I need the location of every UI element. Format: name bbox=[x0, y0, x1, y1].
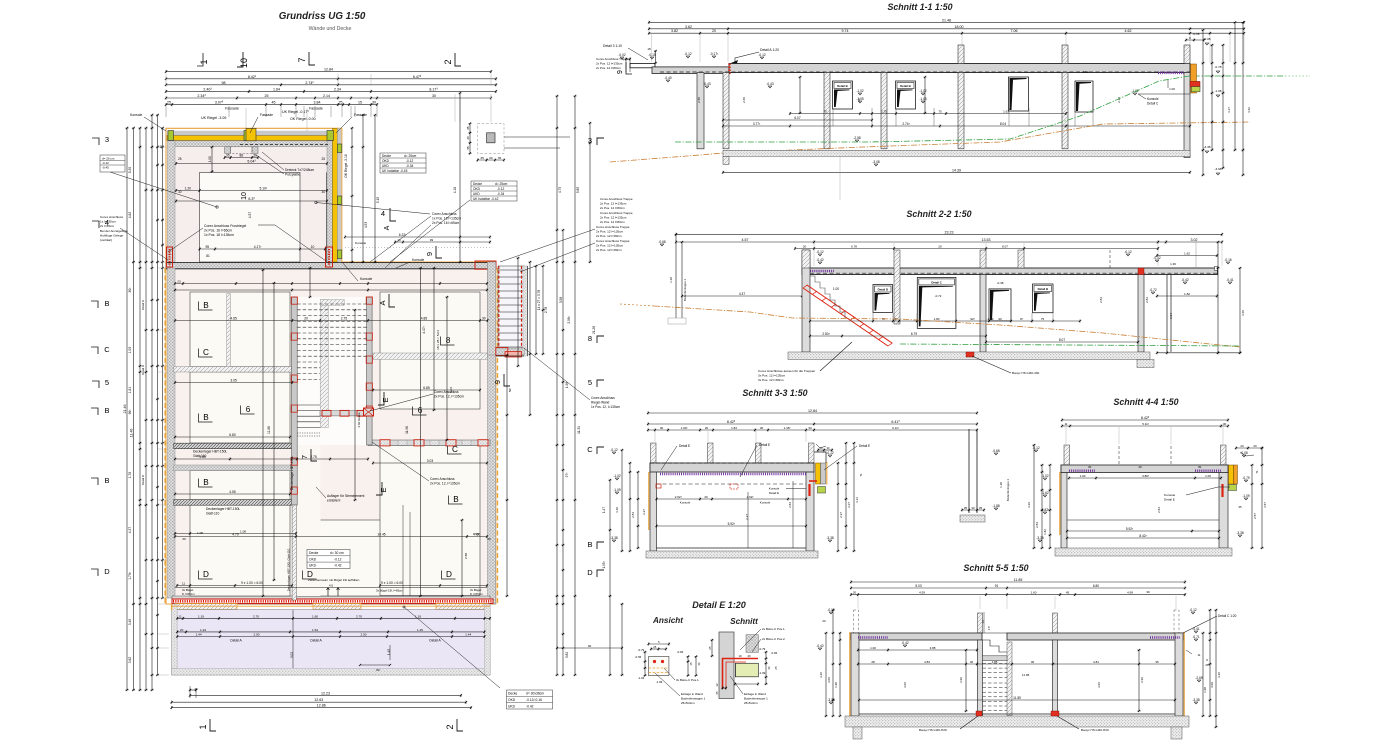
svg-text:Bauyx HS lvl40-H29: Bauyx HS lvl40-H29 bbox=[919, 728, 947, 732]
schnitt1 bottom hatch strip bbox=[723, 150, 1190, 156]
svg-text:Wände und Decke: Wände und Decke bbox=[309, 26, 352, 32]
schnitt2 window boxes bbox=[873, 285, 893, 313]
green anchor blocks top wall bbox=[168, 131, 174, 141]
external stair dims bbox=[528, 261, 548, 416]
svg-text:Bei der Anzeigefuge: Bei der Anzeigefuge bbox=[100, 229, 128, 233]
svg-text:11.85: 11.85 bbox=[1022, 673, 1030, 677]
svg-text:Schnitt 2-2 1:50: Schnitt 2-2 1:50 bbox=[906, 209, 971, 219]
svg-text:-3.08: -3.08 bbox=[872, 160, 879, 164]
svg-text:8.42³: 8.42³ bbox=[727, 420, 736, 424]
svg-text:6.47³: 6.47³ bbox=[413, 75, 422, 79]
wall horizontal light hatch bbox=[174, 465, 291, 471]
svg-text:Bodenfentreppe 1: Bodenfentreppe 1 bbox=[744, 697, 768, 701]
schnitt2 top dims bbox=[675, 230, 1223, 266]
svg-text:20: 20 bbox=[853, 591, 857, 595]
svg-text:99: 99 bbox=[430, 238, 434, 242]
svg-text:35: 35 bbox=[1238, 505, 1242, 509]
svg-text:12.84: 12.84 bbox=[808, 409, 817, 413]
orange insulation dashes right wall bbox=[497, 268, 499, 604]
svg-text:2.34³: 2.34³ bbox=[197, 94, 206, 98]
svg-text:1.38: 1.38 bbox=[999, 482, 1003, 488]
svg-text:Bodenfentreppe 1: Bodenfentreppe 1 bbox=[1006, 478, 1010, 501]
dotted reference line upper right bbox=[345, 247, 490, 249]
svg-text:7: 7 bbox=[300, 455, 309, 459]
svg-text:-1.09: -1.09 bbox=[1242, 494, 1249, 498]
terrace hatch border left bbox=[172, 604, 178, 675]
svg-text:2x Pos. 12 l=135cm: 2x Pos. 12 l=135cm bbox=[600, 202, 627, 206]
schnitt5 walls bbox=[851, 633, 859, 716]
schnitt3 slab bbox=[650, 463, 814, 472]
svg-text:Detail A 1:20: Detail A 1:20 bbox=[760, 48, 779, 52]
detailE schnitt green bar bbox=[735, 663, 758, 677]
svg-text:-0.79: -0.79 bbox=[1242, 476, 1249, 480]
svg-text:2.40³: 2.40³ bbox=[203, 87, 212, 91]
svg-text:2.98³: 2.98³ bbox=[567, 316, 571, 323]
schnitt3 dashed line bbox=[656, 483, 806, 485]
svg-text:Detail 3 1:10: Detail 3 1:10 bbox=[603, 44, 622, 48]
main body top wall hatch bbox=[166, 263, 496, 269]
svg-text:90: 90 bbox=[998, 317, 1002, 321]
external stair side gray band bbox=[523, 266, 528, 356]
svg-text:UK Riegel -3.09: UK Riegel -3.09 bbox=[201, 116, 226, 120]
svg-text:1.00: 1.00 bbox=[1169, 87, 1175, 91]
schnitt1 interior dim lines bbox=[697, 76, 1191, 128]
svg-text:20: 20 bbox=[1253, 444, 1257, 448]
svg-text:30: 30 bbox=[970, 660, 974, 664]
svg-text:-1.09: -1.09 bbox=[613, 488, 620, 492]
svg-text:OKD: OKD bbox=[309, 557, 317, 561]
schnitt4 purple dots bbox=[1069, 470, 1095, 472]
svg-text:88: 88 bbox=[240, 154, 244, 158]
svg-text:2x Pos. 16 l=65cm: 2x Pos. 16 l=65cm bbox=[204, 229, 232, 233]
svg-text:2.74³: 2.74³ bbox=[902, 122, 909, 126]
svg-text:6.79: 6.79 bbox=[911, 332, 917, 336]
svg-text:UKD: UKD bbox=[473, 192, 480, 196]
svg-text:10: 10 bbox=[397, 238, 401, 242]
svg-text:2.50: 2.50 bbox=[253, 633, 259, 637]
svg-text:1.93³: 1.93³ bbox=[681, 426, 688, 430]
svg-text:21.46: 21.46 bbox=[123, 405, 127, 414]
svg-text:1.24: 1.24 bbox=[200, 628, 206, 632]
svg-text:35: 35 bbox=[466, 146, 470, 150]
wall horizontal Deckenlager lower dark bbox=[174, 500, 294, 506]
svg-text:35: 35 bbox=[1155, 660, 1159, 664]
svg-text:2.14: 2.14 bbox=[323, 94, 330, 98]
schnitt5 top dims bbox=[850, 578, 1186, 596]
schnitt4 parapet hatches bbox=[1064, 445, 1070, 465]
svg-text:11.96: 11.96 bbox=[405, 426, 409, 434]
wing left wall hatch bbox=[168, 141, 176, 262]
schnitt5 right dim chains bbox=[1186, 608, 1221, 728]
schnitt3 interior lines bbox=[657, 498, 807, 500]
schnitt1 right wall bbox=[1184, 73, 1190, 158]
svg-text:B: B bbox=[104, 299, 109, 308]
svg-text:25: 25 bbox=[774, 666, 778, 670]
schnitt2 wall far right lines bbox=[1166, 275, 1168, 353]
schnitt1 left cantilever slab white bbox=[630, 63, 655, 67]
svg-text:Detail B: Detail B bbox=[1038, 287, 1048, 291]
schnitt5 stair landing bar bbox=[983, 656, 1008, 661]
svg-text:-0.41: -0.41 bbox=[1192, 627, 1199, 631]
schnitt2 right end details bbox=[1157, 255, 1217, 257]
schnitt2 parapet hatches bbox=[894, 250, 900, 324]
staircase shaft right wall bbox=[367, 297, 373, 445]
svg-text:2.44: 2.44 bbox=[1117, 97, 1121, 103]
svg-text:3.05: 3.05 bbox=[230, 379, 237, 383]
svg-text:12.86: 12.86 bbox=[317, 704, 326, 708]
svg-text:-0.40: -0.40 bbox=[664, 76, 671, 80]
svg-text:14: 14 bbox=[981, 620, 985, 624]
svg-text:1.36: 1.36 bbox=[1170, 262, 1176, 266]
schnitt3 orange left edge bbox=[648, 472, 650, 530]
svg-text:97³: 97³ bbox=[565, 473, 569, 478]
schnitt5 interior dim lines bbox=[857, 641, 1176, 714]
wing wall stubs bbox=[225, 147, 231, 154]
svg-text:Schnitt 5-5 1:50: Schnitt 5-5 1:50 bbox=[963, 563, 1028, 573]
schnitt5 slab opening steps bbox=[982, 633, 1007, 652]
schnitt2 left tall dim bbox=[658, 233, 687, 324]
svg-text:-0.12: -0.12 bbox=[1124, 250, 1131, 254]
svg-text:2.74²: 2.74² bbox=[305, 81, 314, 85]
svg-text:4.85: 4.85 bbox=[421, 317, 428, 321]
wing top wall mid pier bbox=[246, 128, 256, 141]
wing interior fill bbox=[172, 140, 336, 264]
column detail square bbox=[466, 122, 570, 161]
svg-text:1: 1 bbox=[199, 59, 209, 64]
schnitt3 middle lone column bbox=[960, 429, 1010, 522]
svg-text:-0.84: -0.84 bbox=[771, 651, 778, 655]
svg-text:15: 15 bbox=[358, 101, 362, 105]
svg-text:3: 3 bbox=[105, 135, 109, 144]
svg-text:20: 20 bbox=[747, 654, 751, 658]
svg-text:Corex Anschlüsse aussen für di: Corex Anschlüsse aussen für die Treppen bbox=[758, 369, 816, 373]
bottom wall gray bbox=[172, 596, 490, 604]
svg-text:1.85: 1.85 bbox=[992, 660, 998, 664]
svg-text:2.96: 2.96 bbox=[1140, 677, 1144, 683]
svg-text:35: 35 bbox=[715, 691, 719, 695]
svg-text:4: 4 bbox=[381, 209, 385, 218]
svg-text:6.41³: 6.41³ bbox=[891, 420, 900, 424]
schnitt3 bottom hatch bbox=[646, 551, 818, 558]
svg-text:1x Pos. 18 l=135cm: 1x Pos. 18 l=135cm bbox=[204, 233, 234, 237]
svg-text:Detail E: Detail E bbox=[759, 443, 770, 447]
svg-text:5.30: 5.30 bbox=[128, 167, 132, 174]
svg-text:6.78: 6.78 bbox=[851, 245, 857, 249]
detailE schnitt red profile bbox=[723, 659, 759, 690]
schnitt1 right dim chains bbox=[1201, 21, 1251, 176]
info table bottom mid bbox=[307, 550, 350, 569]
svg-text:Decke: Decke bbox=[473, 182, 482, 186]
svg-text:25x5x3cm: 25x5x3cm bbox=[681, 701, 695, 705]
svg-text:9: 9 bbox=[617, 70, 624, 74]
svg-text:1: 1 bbox=[198, 724, 208, 729]
svg-text:-0.12: -0.12 bbox=[1032, 446, 1039, 450]
svg-text:-0.56: -0.56 bbox=[635, 655, 642, 659]
svg-text:2.96: 2.96 bbox=[959, 677, 963, 683]
schnitt1 terrain orange line bbox=[610, 122, 1250, 162]
svg-text:-0.17³: -0.17³ bbox=[710, 52, 718, 56]
svg-text:4.59: 4.59 bbox=[919, 591, 925, 595]
svg-text:-0.08: -0.08 bbox=[1192, 32, 1199, 36]
schnitt2 red stair stringer bbox=[803, 285, 893, 346]
detailE ansicht square bbox=[635, 640, 701, 684]
schnitt2 slab bbox=[802, 268, 1218, 275]
schnitt5 orange edges bbox=[849, 632, 851, 716]
svg-text:2: 2 bbox=[443, 59, 453, 64]
svg-text:-0.12: -0.12 bbox=[827, 608, 834, 612]
svg-text:3.84: 3.84 bbox=[314, 101, 321, 105]
svg-text:-1.04: -1.04 bbox=[638, 676, 645, 680]
svg-text:21.48: 21.48 bbox=[942, 18, 951, 22]
svg-text:11: 11 bbox=[178, 614, 181, 618]
svg-text:4.55: 4.55 bbox=[229, 490, 236, 494]
svg-text:2.57: 2.57 bbox=[1253, 513, 1257, 519]
svg-text:12.84: 12.84 bbox=[324, 68, 333, 72]
svg-text:-0.45: -0.45 bbox=[102, 166, 109, 170]
svg-text:91: 91 bbox=[995, 584, 999, 588]
svg-text:50¹: 50¹ bbox=[508, 388, 512, 392]
schnitt5 red blocks bbox=[976, 711, 982, 716]
svg-text:Detail E: Detail E bbox=[679, 444, 690, 448]
wing right wall yellow band bbox=[333, 128, 338, 262]
svg-text:1.08: 1.08 bbox=[240, 530, 246, 534]
svg-text:Detail E 1:20: Detail E 1:20 bbox=[692, 600, 746, 610]
svg-text:6.07: 6.07 bbox=[794, 116, 800, 120]
svg-text:12.23: 12.23 bbox=[321, 691, 330, 695]
schnitt3 parapet hatches bbox=[651, 443, 657, 463]
svg-text:1.03: 1.03 bbox=[128, 347, 132, 354]
svg-text:Zwischenraum mit Bügel 19l auf: Zwischenraum mit Bügel 19l auffüllen bbox=[308, 578, 360, 582]
svg-text:Decke: Decke bbox=[508, 692, 518, 696]
svg-text:4.37: 4.37 bbox=[128, 527, 132, 534]
interior room rect left mid bbox=[190, 372, 290, 443]
svg-text:-0.43: -0.43 bbox=[703, 82, 710, 86]
svg-text:Einlage in Wand: Einlage in Wand bbox=[744, 692, 766, 696]
svg-text:3.60: 3.60 bbox=[1241, 310, 1245, 316]
svg-text:9: 9 bbox=[425, 252, 434, 256]
svg-text:-0.42: -0.42 bbox=[334, 564, 342, 568]
svg-text:Corex Anschluss Frostriegel: Corex Anschluss Frostriegel bbox=[204, 224, 246, 228]
svg-text:E: E bbox=[381, 397, 390, 402]
svg-text:25: 25 bbox=[167, 101, 171, 105]
svg-text:11.85: 11.85 bbox=[1013, 696, 1021, 700]
foundation hatch segments under red band bbox=[175, 604, 237, 610]
svg-text:11: 11 bbox=[1197, 653, 1200, 657]
svg-text:Detail E: Detail E bbox=[769, 491, 779, 495]
svg-text:-0.84: -0.84 bbox=[677, 650, 684, 654]
wing top wall yellow band bbox=[167, 136, 341, 141]
svg-text:Detail E: Detail E bbox=[1164, 498, 1175, 502]
svg-text:3.62: 3.62 bbox=[685, 25, 692, 29]
svg-text:30: 30 bbox=[1031, 660, 1035, 664]
svg-text:Bauyx HS lvl40-H20: Bauyx HS lvl40-H20 bbox=[1081, 728, 1109, 732]
svg-text:Deckenlager HBT-150L: Deckenlager HBT-150L bbox=[206, 507, 240, 511]
svg-text:4.53: 4.53 bbox=[364, 222, 368, 228]
svg-text:35: 35 bbox=[964, 506, 968, 510]
svg-text:4.62: 4.62 bbox=[1125, 29, 1132, 33]
schnitt5 dashed columns bbox=[854, 610, 859, 633]
svg-text:-1.02: -1.02 bbox=[919, 89, 926, 93]
svg-text:Schnitt 3-3 1:50: Schnitt 3-3 1:50 bbox=[742, 388, 807, 398]
svg-text:Konsole: Konsole bbox=[680, 501, 691, 505]
svg-text:-3.38: -3.38 bbox=[610, 536, 617, 540]
svg-text:Corex Anschluss Treppe: Corex Anschluss Treppe bbox=[600, 211, 633, 215]
svg-text:4.99: 4.99 bbox=[1127, 591, 1133, 595]
svg-text:2x Pos. 12 l=80cm: 2x Pos. 12 l=80cm bbox=[600, 206, 625, 210]
svg-text:-0.72: -0.72 bbox=[1149, 288, 1156, 292]
svg-text:1.20: 1.20 bbox=[185, 187, 192, 191]
svg-text:11: 11 bbox=[1064, 422, 1067, 426]
svg-text:Konsole: Konsole bbox=[1164, 493, 1175, 497]
svg-text:C: C bbox=[104, 345, 110, 354]
schnitt2 box witness lines bbox=[873, 313, 1053, 321]
svg-text:-0.12: -0.12 bbox=[610, 448, 617, 452]
svg-text:30: 30 bbox=[971, 506, 975, 510]
schnitt3 left dims bbox=[610, 448, 646, 552]
svg-text:1.00: 1.00 bbox=[208, 156, 212, 162]
svg-text:3.88: 3.88 bbox=[930, 646, 936, 650]
svg-text:3.03: 3.03 bbox=[427, 459, 434, 463]
schnitt2 left wall bbox=[802, 250, 810, 352]
bottom wall red dotted strip bbox=[172, 599, 493, 603]
svg-text:3x Bügel 19l, l=65cm: 3x Bügel 19l, l=65cm bbox=[376, 589, 404, 593]
svg-text:2.84: 2.84 bbox=[631, 512, 635, 518]
svg-text:7: 7 bbox=[297, 57, 307, 62]
schnitt5 parapet hatches bbox=[978, 613, 983, 633]
svg-text:Grundriss UG 1:50: Grundriss UG 1:50 bbox=[279, 11, 366, 22]
svg-text:11.85: 11.85 bbox=[1014, 578, 1023, 582]
schnitt4 interior dims bbox=[1066, 465, 1222, 540]
svg-text:11: 11 bbox=[159, 145, 163, 149]
svg-text:Einlage in Wand: Einlage in Wand bbox=[681, 692, 703, 696]
svg-text:6.85: 6.85 bbox=[423, 386, 430, 390]
svg-text:30: 30 bbox=[1146, 590, 1150, 594]
interior room rect bottom left bbox=[190, 505, 290, 596]
svg-text:Corex Anschluss: Corex Anschluss bbox=[591, 396, 615, 400]
red corner marker top-right wall bbox=[475, 261, 496, 269]
svg-text:8.04: 8.04 bbox=[1000, 122, 1006, 126]
svg-text:1.00: 1.00 bbox=[870, 646, 876, 650]
svg-text:Bodenfenstappe 1: Bodenfenstappe 1 bbox=[681, 697, 706, 701]
svg-text:UK Isolation -0.42: UK Isolation -0.42 bbox=[473, 197, 499, 201]
svg-text:Fassade: Fassade bbox=[354, 113, 367, 117]
schnitt5 hatch strip right of stair bbox=[1007, 642, 1012, 716]
wing dashed line bbox=[240, 144, 330, 146]
svg-text:Konsole: Konsole bbox=[412, 258, 424, 262]
svg-text:-0.42: -0.42 bbox=[901, 641, 908, 645]
svg-text:Konsole: Konsole bbox=[360, 277, 372, 281]
svg-text:1x l=135cm: 1x l=135cm bbox=[100, 220, 116, 224]
svg-text:-0.12: -0.12 bbox=[816, 250, 823, 254]
schnitt3 top dims bbox=[647, 409, 978, 432]
svg-text:8: 8 bbox=[588, 334, 592, 343]
svg-text:36: 36 bbox=[767, 666, 771, 670]
svg-text:3x Pos. 12 l=80cm: 3x Pos. 12 l=80cm bbox=[758, 378, 784, 382]
svg-text:-0.12: -0.12 bbox=[497, 187, 504, 191]
outer wall outline orange bbox=[166, 128, 496, 604]
svg-text:3.26: 3.26 bbox=[1217, 672, 1221, 678]
svg-text:-0.08: -0.08 bbox=[1240, 451, 1247, 455]
svg-text:81: 81 bbox=[1088, 465, 1092, 469]
svg-text:11: 11 bbox=[182, 582, 185, 586]
svg-text:2.75: 2.75 bbox=[341, 317, 348, 321]
svg-text:-0.72: -0.72 bbox=[935, 294, 942, 298]
schnitt2 dim 4.37 bbox=[682, 295, 802, 297]
schnitt2 interior dims bbox=[809, 250, 1157, 344]
schnitt1 top small dims right bbox=[1186, 39, 1204, 41]
svg-text:6.11³: 6.11³ bbox=[892, 426, 899, 430]
svg-text:3.07³: 3.07³ bbox=[215, 101, 224, 105]
svg-text:30: 30 bbox=[182, 537, 186, 541]
svg-text:D: D bbox=[203, 570, 209, 579]
svg-text:C: C bbox=[587, 445, 593, 454]
schnitt3 right dims bbox=[826, 442, 863, 552]
staircase red wall ties bbox=[291, 297, 297, 304]
svg-text:3.82: 3.82 bbox=[671, 29, 678, 33]
svg-text:2.34: 2.34 bbox=[1169, 313, 1173, 319]
dimension chain plan left bbox=[123, 114, 164, 691]
svg-text:B: B bbox=[104, 406, 109, 415]
svg-text:7.06: 7.06 bbox=[1011, 29, 1018, 33]
svg-text:Decke: Decke bbox=[382, 154, 391, 158]
svg-text:2x Bstre-C Pos.1.: 2x Bstre-C Pos.1. bbox=[762, 627, 786, 631]
svg-text:-0.12: -0.12 bbox=[826, 451, 833, 455]
svg-text:30: 30 bbox=[482, 317, 486, 321]
schnitt4 right dims bbox=[1236, 447, 1267, 549]
svg-text:8.42³: 8.42³ bbox=[1139, 534, 1146, 538]
svg-text:Schnitt 1-1 1:50: Schnitt 1-1 1:50 bbox=[887, 2, 952, 12]
svg-text:Bodenfentreppe 1: Bodenfentreppe 1 bbox=[683, 278, 687, 301]
svg-text:4.18: 4.18 bbox=[453, 187, 457, 194]
svg-text:3.82: 3.82 bbox=[565, 652, 569, 658]
svg-text:1.80: 1.80 bbox=[934, 317, 940, 321]
svg-text:Detail A: Detail A bbox=[310, 639, 322, 643]
svg-text:6: 6 bbox=[246, 405, 251, 414]
svg-text:-0.92: -0.92 bbox=[1082, 70, 1089, 74]
schnitt2 wall right bbox=[1138, 275, 1144, 353]
svg-text:30: 30 bbox=[1223, 422, 1227, 426]
svg-text:9: 9 bbox=[493, 380, 502, 384]
terrace leader circle bbox=[403, 606, 405, 608]
svg-text:d= 30x36cm: d= 30x36cm bbox=[526, 692, 544, 696]
svg-text:6.22³: 6.22³ bbox=[399, 233, 407, 237]
wing right wall hatch bbox=[327, 141, 333, 262]
svg-text:30: 30 bbox=[321, 190, 325, 194]
dimension chain plan right bbox=[505, 95, 623, 676]
svg-text:-0.43: -0.43 bbox=[766, 82, 773, 86]
svg-text:4.82: 4.82 bbox=[128, 212, 132, 219]
svg-text:Detail D: Detail D bbox=[141, 475, 145, 485]
svg-text:1.98: 1.98 bbox=[565, 382, 569, 388]
svg-text:-0.42: -0.42 bbox=[526, 704, 534, 708]
svg-text:Dreieck 7x7/248um: Dreieck 7x7/248um bbox=[285, 168, 314, 172]
svg-text:2x Pos. 12, l=135cm: 2x Pos. 12, l=135cm bbox=[430, 482, 460, 486]
schnitt5 witness lines bbox=[858, 596, 1176, 609]
svg-text:25: 25 bbox=[653, 645, 657, 649]
svg-text:-0.12: -0.12 bbox=[758, 53, 765, 57]
schnitt4 right appendage bbox=[1229, 465, 1234, 484]
svg-text:-1.05: -1.05 bbox=[919, 97, 926, 101]
interior room rect bottom mid bbox=[298, 520, 463, 596]
interior room rect right mid bbox=[380, 446, 480, 596]
svg-text:1.81: 1.81 bbox=[128, 387, 132, 394]
svg-text:30: 30 bbox=[178, 190, 182, 194]
svg-text:Detail C 1:20: Detail C 1:20 bbox=[1218, 614, 1237, 618]
interior room rect left upper bbox=[190, 292, 290, 367]
red markers wing left wall bbox=[167, 247, 173, 267]
svg-text:-3.38: -3.38 bbox=[826, 536, 833, 540]
svg-text:Detail A: Detail A bbox=[230, 639, 242, 643]
